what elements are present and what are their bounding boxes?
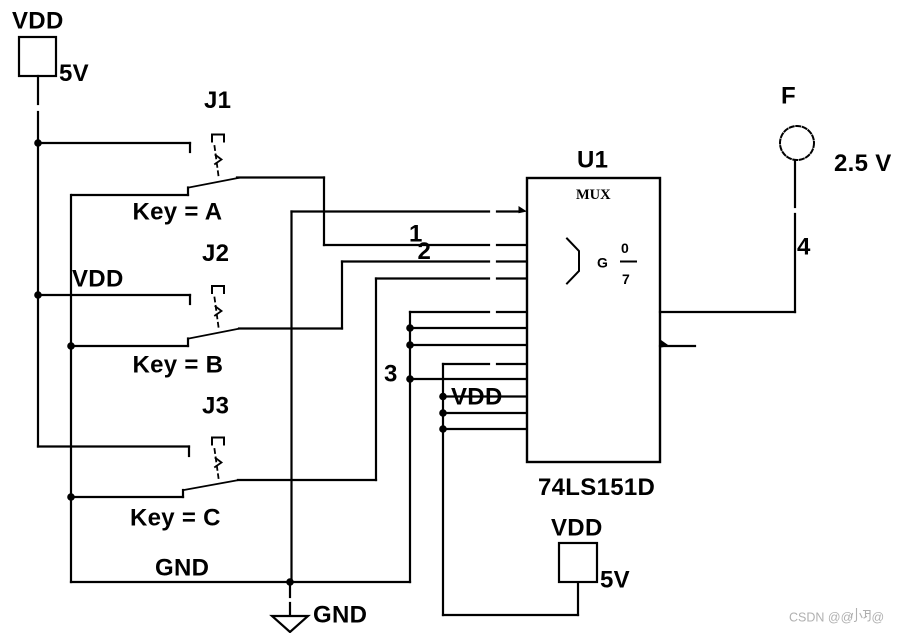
J2 blade: [189, 329, 239, 339]
switch J1: [133, 87, 240, 226]
probe F circle: [780, 126, 814, 160]
svg-text:VDD: VDD: [72, 266, 124, 293]
svg-text:J3: J3: [202, 393, 229, 420]
svg-text:J2: J2: [202, 240, 229, 267]
svg-text:3: 3: [384, 361, 397, 388]
J1 top contact tick: [189, 143, 191, 152]
J3 key arrow chevron: [215, 458, 222, 467]
wire net 1 into mux (segment b): [497, 244, 527, 246]
J1 pole tick: [187, 188, 189, 196]
wire net 3 into mux (segment a): [376, 277, 489, 279]
ground stub solid: [289, 582, 291, 597]
svg-text:CSDN @@: CSDN @@: [789, 611, 853, 625]
junction at VDD rail / J1 top: [34, 139, 42, 147]
wire high chain bottom horizontal: [443, 614, 578, 616]
junction ground bus / ground symbol: [286, 578, 294, 586]
wire D0 pin (segment a): [410, 311, 489, 313]
svg-text:U1: U1: [577, 147, 608, 174]
power VDD source V1 (top-left): [19, 37, 56, 76]
svg-text:VDD: VDD: [451, 384, 503, 411]
wire net 1 into mux (segment a): [324, 244, 489, 246]
wire D2 pin: [410, 344, 527, 346]
svg-text:J1: J1: [204, 87, 231, 114]
watermark glyph feng: [864, 611, 871, 622]
multiplexer U1 74LS151D: [527, 178, 660, 462]
J3 key dashed link: [215, 449, 219, 478]
junction D5: [439, 393, 447, 401]
output W pin stub: [660, 345, 695, 347]
wire D7 pin: [443, 428, 527, 430]
svg-text:Key = A: Key = A: [133, 199, 223, 226]
wire VDD rail vertical to J2: [37, 143, 39, 295]
junction D1: [406, 324, 414, 332]
wire enable G' vertical to ground bus: [290, 212, 292, 583]
junction D6: [439, 409, 447, 417]
svg-text:2.5 V: 2.5 V: [834, 150, 892, 177]
enable pin arrowhead: [519, 206, 528, 213]
J2 top contact tick: [189, 295, 191, 304]
svg-text:GND: GND: [155, 555, 209, 582]
power VDD source V2 (bottom): [559, 543, 597, 582]
wire net 2 into mux (segment b): [497, 260, 527, 262]
svg-text:G: G: [597, 255, 608, 271]
svg-text:4: 4: [797, 234, 811, 261]
wire enable G' horizontal (segment a): [292, 210, 490, 212]
wire J1 top contact horizontal: [38, 142, 190, 144]
wire net 4 vertical (segment b): [794, 214, 796, 312]
U1 select bracket symbol: [567, 239, 579, 284]
wire net 3 into mux (segment b): [497, 277, 527, 279]
wire D5 pin: [443, 395, 527, 397]
svg-text:Key = C: Key = C: [130, 505, 221, 532]
J3 key cap symbol: [212, 438, 224, 445]
wire net 4 vertical (segment a): [794, 160, 796, 207]
wire D6 pin: [443, 412, 527, 414]
wire output Y horizontal: [660, 311, 795, 313]
wire D0 pin (segment b): [497, 311, 527, 313]
J2 pole tick: [187, 339, 189, 347]
wire J2 throw output horizontal: [239, 327, 342, 329]
J2 key cap symbol: [212, 286, 224, 293]
J3 blade: [184, 480, 238, 490]
svg-text:5V: 5V: [59, 60, 89, 87]
junction D7: [439, 425, 447, 433]
wire VDD rail vertical to J3: [37, 295, 39, 447]
svg-text:Key = B: Key = B: [133, 352, 224, 379]
svg-text:74LS151D: 74LS151D: [538, 474, 655, 501]
wire J3 throw output horizontal: [238, 479, 376, 481]
wire net 1 vertical: [323, 178, 325, 246]
wire VDD source V2 stub: [577, 582, 579, 615]
output W arrowhead: [661, 340, 670, 348]
watermark glyph xiao: [851, 609, 862, 622]
wire J1 pole bottom horizontal: [72, 194, 188, 196]
wire J2 top contact horizontal: [38, 294, 190, 296]
wire J2 pole bottom horizontal: [71, 345, 188, 347]
J1 blade: [189, 178, 239, 188]
J1 key cap symbol: [212, 135, 224, 142]
junction common rail / J2 pole: [67, 342, 75, 350]
D-input high chain vertical (net to VDD): [442, 364, 444, 615]
junction D2: [406, 341, 414, 349]
svg-text:5V: 5V: [600, 567, 630, 594]
switch J2: [72, 240, 239, 379]
svg-text:VDD: VDD: [551, 515, 603, 542]
wire J3 top contact horizontal: [38, 445, 189, 447]
ground symbol triangle: [272, 616, 308, 632]
svg-text:GND: GND: [313, 602, 367, 629]
J3 pole tick: [182, 490, 184, 497]
U1 range fraction bar: [621, 261, 636, 263]
junction common rail / J3 pole: [67, 493, 75, 501]
svg-text:VDD: VDD: [12, 8, 64, 35]
wire D3 pin (segment a): [443, 363, 489, 365]
wire net 2 vertical: [341, 262, 343, 329]
J3 top contact tick: [188, 447, 190, 457]
wire net 2 into mux (segment a): [342, 260, 489, 262]
svg-text:2: 2: [418, 238, 431, 265]
J1 key arrow chevron: [215, 155, 222, 164]
wire enable G' horizontal (segment b): [497, 210, 518, 212]
svg-text:MUX: MUX: [576, 187, 611, 203]
wire D4 pin: [410, 378, 527, 380]
D-input low chain vertical (net to ground bus): [409, 312, 411, 582]
J1 key dashed link: [215, 146, 219, 176]
wire switch-common vertical rail: [70, 195, 72, 582]
svg-text:0: 0: [621, 240, 629, 256]
J2 key arrow chevron: [215, 307, 222, 316]
wire net 3 vertical: [375, 279, 377, 481]
J2 key dashed link: [215, 298, 219, 328]
wire V1 down segment b: [37, 112, 39, 143]
ground stub dash: [289, 603, 291, 614]
wire J1 throw output horizontal: [237, 176, 324, 178]
wire D3 pin (segment b): [497, 363, 527, 365]
wire J3 pole bottom horizontal: [71, 496, 183, 498]
junction D4: [406, 375, 414, 383]
ground bus wire: [71, 581, 410, 583]
junction at VDD rail / J2 top: [34, 291, 42, 299]
svg-text:@: @: [872, 611, 885, 625]
svg-text:F: F: [781, 83, 796, 110]
switch J3: [130, 393, 238, 532]
svg-text:7: 7: [622, 271, 630, 287]
wire D1 pin: [410, 327, 527, 329]
wire V1 down segment a: [37, 76, 39, 104]
